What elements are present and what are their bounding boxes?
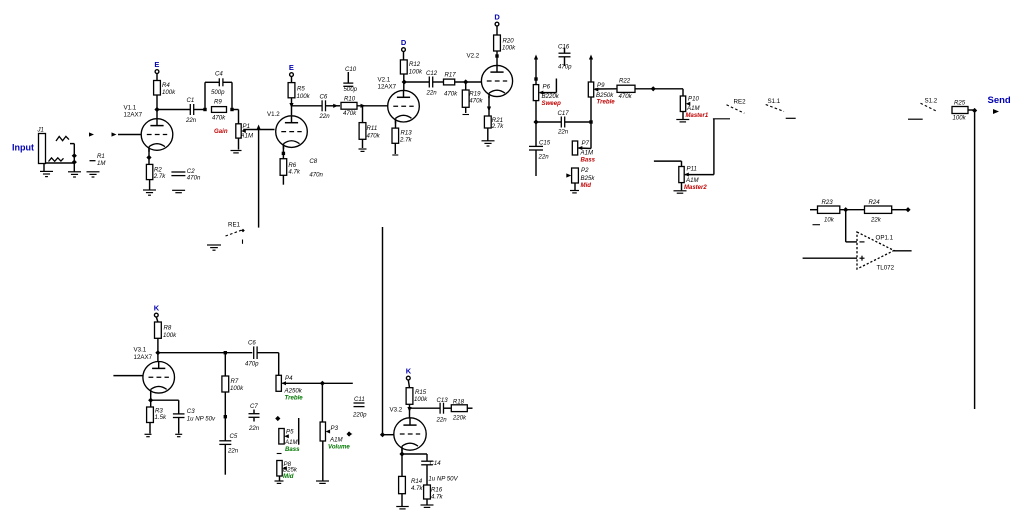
junction opamp node [843,207,848,212]
wire R24 right [892,209,906,211]
svg-text:D: D [401,38,407,47]
wire R12 to plate [403,74,405,90]
svg-text:C15: C15 [539,140,551,147]
wire P10 to ground [682,112,684,120]
node treble bottom [589,120,592,123]
wire P6 wiper [540,79,557,93]
svg-text:22n: 22n [426,90,438,97]
wire plate V1.2 to C6 [292,105,323,107]
svg-text:22n: 22n [319,113,331,120]
pot P11 Master2 [679,166,708,192]
wire P10 top [682,89,684,96]
wire R3 to ground [149,423,151,434]
svg-text:C11: C11 [354,396,365,403]
junction plate V3.1 [155,350,160,355]
node R7 tap [224,351,227,354]
wire P1 to ground [238,138,240,149]
svg-text:D: D [494,13,500,22]
svg-text:22k: 22k [870,217,882,224]
svg-text:1M: 1M [97,160,106,167]
junction arrow cathode V2.2 [487,107,491,112]
svg-text:A1M: A1M [240,133,254,140]
pot P6 Sweep [533,84,561,108]
capacitor C15 [529,122,551,176]
wire cathode V3.2 [401,449,403,477]
svg-text:4.7k: 4.7k [431,494,443,501]
triode V1.1 [124,105,173,152]
svg-text:1u NP 50v: 1u NP 50v [187,416,216,423]
svg-text:C4: C4 [215,71,223,78]
svg-text:R23: R23 [822,199,834,206]
svg-text:P3: P3 [331,425,339,432]
triode V2.1 [378,77,420,124]
wire node to P1 [232,110,239,124]
svg-text:P11: P11 [687,166,697,173]
wire cathode to C14 [402,453,427,455]
wire K to R8 [156,317,158,322]
svg-text:22n: 22n [248,425,260,432]
junction tone node [533,119,538,124]
wire R4 to plate [156,95,158,118]
wire R10 to V2.1 grid [357,105,388,107]
svg-text:22n: 22n [557,129,569,136]
svg-text:R13: R13 [401,130,413,137]
capacitor C6 [319,94,331,121]
wire treble node down [590,122,592,149]
wire R22 to P10 [635,88,683,90]
capacitor C13 [436,397,449,424]
svg-text:220p: 220p [352,412,367,419]
svg-text:12AX7: 12AX7 [378,84,397,91]
svg-text:100k: 100k [230,385,244,392]
svg-text:R15: R15 [415,389,427,396]
wire cathode V2.2 [488,96,490,116]
wire P9 wiper to R22 [595,88,617,90]
wire R7 to C5 [224,392,226,441]
resistor R22 [617,78,635,101]
svg-text:R20: R20 [503,38,515,45]
wire R5 to plate V1.2 [291,98,293,116]
resistor R10 [341,96,357,118]
svg-text:R9: R9 [214,99,222,106]
ground under R3 [145,434,152,436]
junction R24 out [905,207,910,212]
switch S1.2 [908,98,938,120]
svg-text:500p: 500p [344,86,358,93]
svg-text:P6: P6 [543,84,551,91]
net arrow before R10 [333,104,338,108]
wire to non-inverting input [803,257,857,259]
svg-text:R7: R7 [231,378,239,385]
resistor on input wire [49,158,64,162]
svg-text:100k: 100k [953,115,967,122]
resistor R7 [222,376,244,392]
junction plate V2.1 [402,79,407,84]
svg-text:R8: R8 [164,325,172,332]
wire R8 to plate [157,338,159,361]
svg-text:P9: P9 [597,82,605,89]
wire R25 to node [968,109,973,111]
svg-text:100k: 100k [502,45,516,52]
capacitor C12 [426,70,438,97]
net arrow P2 mid [566,173,571,177]
triode V3.1 [134,347,175,395]
svg-text:B25k: B25k [581,175,596,182]
wire P11 top [681,161,683,166]
svg-text:22n: 22n [227,448,239,455]
ground under C3 [175,434,182,436]
svg-text:V3.2: V3.2 [390,407,403,414]
svg-text:S1.2: S1.2 [925,98,938,105]
jack J1 [37,127,46,172]
ground input shunt [68,172,81,177]
junction cathode V3.1 [148,398,153,403]
svg-text:500p: 500p [211,89,225,96]
svg-text:R10: R10 [344,96,356,103]
svg-text:12AX7: 12AX7 [124,112,143,119]
svg-text:Bass: Bass [581,157,596,164]
varistor VR1 [56,136,69,141]
svg-text:P2: P2 [581,167,589,174]
svg-text:100k: 100k [297,93,311,100]
triode V3.2 [390,407,427,452]
svg-text:B220k: B220k [542,93,560,100]
wire R16 to ground [426,499,428,505]
svg-text:E: E [154,60,159,69]
resistor R15 [406,388,428,405]
wire R6 down [282,175,284,184]
svg-text:Master1: Master1 [686,113,709,119]
wire RE1 rail [258,128,260,228]
ground under P2 [570,191,579,193]
wire input shunt [70,144,74,172]
junction arrow plate V3.2 [407,407,411,412]
supply node E (V1.1) [154,60,159,74]
wire send rail [974,113,976,410]
svg-text:P10: P10 [688,96,699,103]
svg-text:1u NP 50V: 1u NP 50V [428,476,458,483]
svg-text:100k: 100k [414,396,428,403]
svg-text:1.5k: 1.5k [155,414,167,421]
capacitor C4 branch [205,71,232,110]
svg-text:Send: Send [988,95,1011,106]
wire P11 to ground [681,183,683,191]
pot P10 Master1 [680,96,709,120]
junction cathode V1.1 [146,155,151,160]
junction input node [72,153,77,165]
svg-text:C13: C13 [437,397,449,404]
resistor R5 [288,83,311,100]
node plate V2.2 [495,54,498,57]
svg-text:2.7k: 2.7k [399,137,412,144]
ground under P3 [316,481,329,483]
svg-text:P5: P5 [286,429,294,436]
pot P3 Volume [320,422,350,451]
net arrow input b [112,132,117,136]
wire R19 tap [465,82,467,90]
resistor R6 [280,159,301,176]
pot P7 Bass [572,140,595,164]
svg-text:Input: Input [12,143,34,153]
wire P6b to ground [279,476,281,481]
ground RE1 [207,245,221,250]
junction send node [972,108,977,113]
svg-text:A1M: A1M [580,150,594,157]
wire D to R12 [403,52,405,60]
resistor R13 [392,128,412,143]
svg-text:P7: P7 [582,140,590,147]
junction master node [651,86,656,91]
net arrow after R10 [361,104,366,108]
svg-text:A1M: A1M [284,439,298,446]
resistor R9 [212,99,227,122]
svg-text:R24: R24 [869,199,881,206]
svg-text:E: E [289,63,294,72]
junction V3.2 grid [380,432,385,437]
svg-text:R18: R18 [453,399,465,406]
wire cathode V3.1 down [150,393,152,407]
svg-text:470n: 470n [309,172,323,179]
ground under R16 [421,505,434,507]
svg-text:K: K [154,304,160,313]
pot P4 Treble [276,375,303,402]
wire cathode V1.1 [148,148,150,164]
svg-text:V2.1: V2.1 [378,77,391,84]
wire P1 wiper to V1.2 grid [243,129,274,131]
supply node D (V2.1) [401,38,407,51]
svg-text:12AX7: 12AX7 [134,354,153,361]
svg-text:TL072: TL072 [877,265,895,272]
capacitor C14 [421,454,458,485]
resistor R23 [810,199,840,224]
supply node E (V1.2) [289,63,294,77]
svg-text:C1: C1 [187,97,195,104]
wire cathode V2.1 [395,120,397,129]
svg-text:Mid: Mid [581,182,592,189]
svg-text:100k: 100k [409,69,423,76]
svg-text:470n: 470n [187,175,201,182]
wire tone node to C17 [536,121,562,123]
relay RE1 [226,222,245,244]
label C8 [309,158,323,179]
ground under R14 [396,507,409,509]
svg-text:A1M: A1M [329,437,343,444]
svg-text:RE1: RE1 [228,222,241,229]
wire node to inverting input [846,210,857,242]
svg-text:10k: 10k [824,217,835,224]
svg-text:A1M: A1M [685,177,699,184]
svg-text:Sweep: Sweep [542,100,562,107]
svg-text:V1.1: V1.1 [124,105,137,112]
ground under R2 [143,190,156,195]
wire volume node right [322,382,352,384]
wire cathode V3.1 right [151,399,179,401]
wire R7 tap [224,353,226,376]
svg-text:R17: R17 [445,72,457,79]
svg-text:V1.2: V1.2 [267,111,280,118]
resistor R1 [90,153,107,167]
resistor R24 [865,199,892,224]
wire K2 to R15 [408,380,409,388]
triode V2.2 [467,53,513,99]
wire to V1.1 grid [118,134,141,136]
resistor R17 [444,72,459,98]
svg-text:C10: C10 [345,66,357,73]
resistor R12 [400,60,423,76]
resistor R4 [154,81,177,97]
svg-text:2.7k: 2.7k [153,173,166,180]
svg-text:J1: J1 [37,127,44,134]
wire R20 to plate [496,51,498,65]
svg-text:R16: R16 [431,487,443,494]
wire C12 to R17 [433,81,444,83]
wire R11 tap [362,106,364,123]
ground under P1 [231,151,242,153]
pot P1 Gain [214,123,254,140]
wire plate V3.2 to C13 [410,407,441,409]
wire C13 to R18 [444,407,452,409]
svg-text:470k: 470k [444,91,458,98]
wire C6 to R10 [326,105,341,107]
wire R13 down [394,143,396,154]
ground under P11 [674,191,687,193]
pot P5 Bass [279,429,300,454]
node sweep rail [534,77,537,80]
svg-text:C6: C6 [248,340,256,347]
svg-text:A250k: A250k [284,388,303,395]
svg-text:C17: C17 [558,110,570,117]
svg-text:R25: R25 [954,100,966,107]
ground under P10 [676,120,689,122]
op-amp OP1.1 [857,232,895,272]
svg-text:Master2: Master2 [684,185,707,191]
net arrow RE1 rail [257,125,261,130]
svg-text:470k: 470k [367,133,381,140]
supply node K (V3.1) [154,304,160,318]
svg-text:C5: C5 [230,433,238,440]
pot P6b Mid [277,461,298,481]
svg-text:220k: 220k [452,415,467,422]
svg-text:R1: R1 [97,153,105,160]
svg-text:C14: C14 [430,460,442,467]
wire C17 to treble [565,121,591,123]
junction plate V1.1 [154,107,159,112]
svg-text:470k: 470k [343,110,357,117]
wire R17 to V2.2 grid [455,81,482,83]
resistor R19 [462,90,483,107]
svg-text:R14: R14 [411,478,423,485]
svg-text:R22: R22 [619,78,631,85]
resistor R11 [359,123,381,140]
svg-text:22n: 22n [436,417,448,424]
capacitor C6b [245,340,259,368]
svg-text:Gain: Gain [214,128,228,135]
resistor R25 [952,100,968,122]
svg-text:470k: 470k [469,98,483,105]
pot P2 Mid [572,167,596,189]
wire R14 to ground [401,494,403,506]
svg-text:22n: 22n [185,117,197,124]
wire into P11 [654,160,682,162]
net arrow sweep rail [534,55,538,60]
wire R11 to ground [362,139,364,148]
svg-text:100k: 100k [162,89,176,96]
svg-text:470p: 470p [558,64,572,71]
supply node K (V3.2) [406,367,412,381]
wire D2 to R20 [496,26,498,35]
port Send [988,95,1011,114]
svg-text:470p: 470p [245,361,259,368]
relay RE2 [713,99,746,119]
wire C1 to node [194,109,205,111]
svg-text:R12: R12 [409,61,421,68]
net arrow P3 wiper [347,431,353,436]
net arrow treble rail [589,55,593,60]
capacitor C16 [558,44,572,71]
ground under R11 [359,149,367,151]
node C4 right [230,108,233,111]
ground under R21 [482,141,495,146]
ground under R1 [87,172,100,177]
svg-text:R19: R19 [469,91,481,98]
junction cathode V3.2 [399,451,404,456]
capacitor C1 [185,97,197,124]
resistor R3 [147,407,167,423]
resistor R14 [399,476,424,493]
svg-text:OP1.1: OP1.1 [876,235,894,242]
ground mark opamp [813,224,821,226]
svg-text:K: K [406,367,412,376]
wire opamp output [894,250,912,252]
svg-text:2.7k: 2.7k [491,123,504,130]
svg-text:R5: R5 [297,86,305,93]
wire plate to C1 [157,109,191,111]
port Input [12,143,34,153]
wire P11 wiper to RE2 [685,119,714,175]
net arrow input a [89,132,94,136]
node R7 C5 [224,415,227,418]
ground R19 [463,114,470,116]
svg-text:4.7k: 4.7k [288,169,300,176]
wire V3.2 grid [383,434,394,436]
svg-text:C7: C7 [250,403,258,410]
node C4 left [203,108,206,111]
capacitor C3 [173,400,216,433]
wire R19 bottom [465,107,467,113]
svg-text:C3: C3 [187,408,195,415]
pot P9 Treble [588,82,615,106]
ground under P5 [277,453,282,455]
wire R15 to plate [409,404,411,418]
wire treble to node [590,97,592,122]
wire R23 to R24 [840,209,865,211]
svg-text:C12: C12 [426,70,438,77]
wire right of P5 [298,418,300,445]
svg-text:Treble: Treble [285,395,304,402]
wire P3 to ground [322,441,324,481]
junction R19 node [463,79,468,84]
svg-text:C6: C6 [320,94,328,101]
wire C6b to P4 [257,353,279,376]
wire long rail to V3.2 [382,227,384,435]
svg-text:Mid: Mid [283,473,294,480]
wire P4 wiper [282,382,322,384]
svg-text:R11: R11 [367,125,378,132]
wire volume pot [321,383,323,422]
svg-text:R4: R4 [162,82,170,89]
wire R21 to ground [487,128,489,141]
wire to V3.1 grid [113,375,142,377]
